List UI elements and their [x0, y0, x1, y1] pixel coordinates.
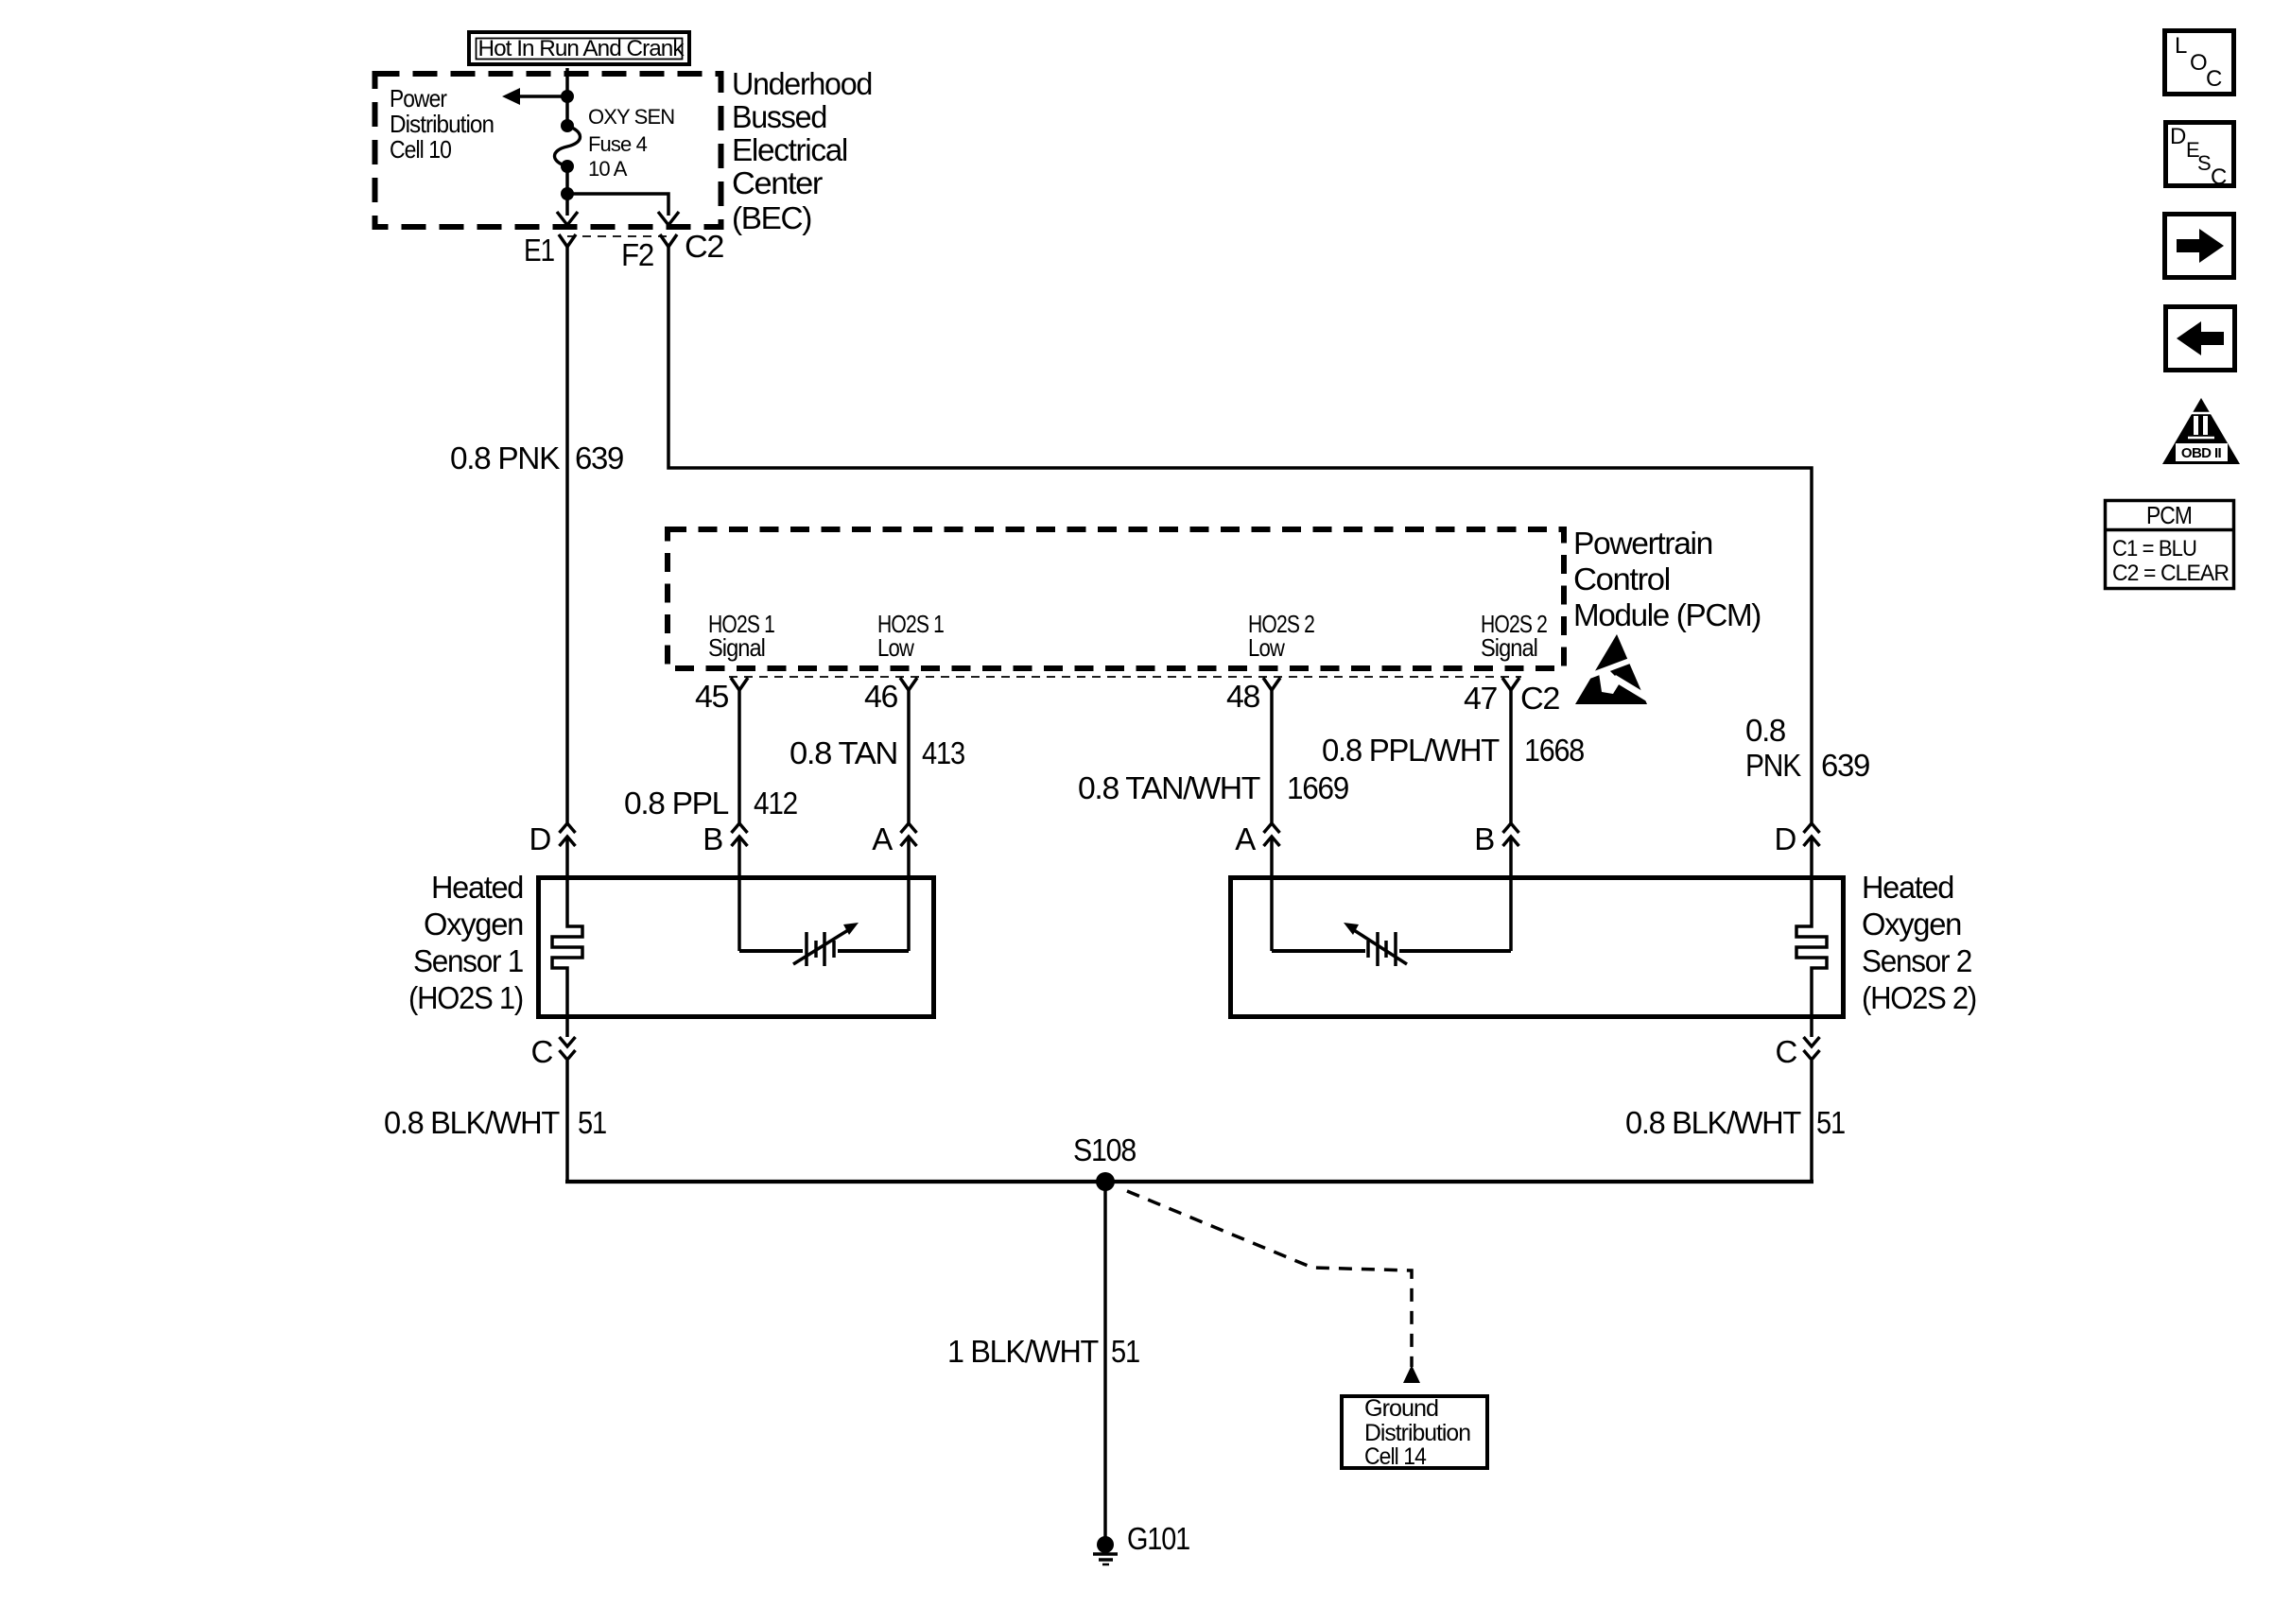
- label Underhood Bussed Electrical Center (BEC): [732, 66, 872, 235]
- svg-text:Sensor 1: Sensor 1: [413, 943, 523, 978]
- variable sense resistor HO2S2: [1272, 923, 1511, 966]
- wire 0.8 TAN/WHT 1669 (pin 48 to HO2S2 A): [1270, 690, 1274, 823]
- label HO2S 1 Signal: [708, 610, 774, 662]
- junction (fuse feed): [561, 90, 574, 103]
- svg-text:Distribution: Distribution: [390, 110, 494, 138]
- svg-text:1669: 1669: [1287, 770, 1348, 805]
- pin chevrons D (HO2S2): [1804, 823, 1820, 846]
- svg-text:C: C: [1775, 1034, 1796, 1069]
- label 0.8 PPL/WHT 1668: [1322, 733, 1584, 768]
- label 0.8 PNK 639 (right): [1745, 713, 1869, 783]
- ESD sensitivity symbol: [1575, 634, 1655, 704]
- label Powertrain Control Module (PCM): [1573, 526, 1761, 632]
- pin 47 (Y): [1502, 678, 1519, 690]
- pin chevrons D (HO2S1): [560, 823, 576, 846]
- svg-text:0.8 PNK: 0.8 PNK: [450, 441, 560, 475]
- label 1 BLK/WHT 51: [947, 1334, 1139, 1369]
- wire fuse output to branch junction: [565, 166, 569, 216]
- svg-text:S: S: [2197, 151, 2211, 175]
- svg-text:1 BLK/WHT: 1 BLK/WHT: [947, 1334, 1099, 1369]
- wire 1 BLK/WHT 51 (splice to G101): [1103, 1182, 1107, 1538]
- svg-text:0.8 TAN/WHT: 0.8 TAN/WHT: [1078, 770, 1260, 805]
- svg-text:0.8 BLK/WHT: 0.8 BLK/WHT: [384, 1105, 560, 1140]
- svg-text:639: 639: [575, 441, 623, 475]
- svg-text:L: L: [2175, 33, 2187, 59]
- wire branch to C2 terminal: [567, 194, 668, 216]
- svg-text:Underhood: Underhood: [732, 66, 872, 101]
- svg-text:(BEC): (BEC): [732, 200, 811, 235]
- svg-text:A: A: [872, 821, 893, 856]
- connector pin C2 (Y): [660, 234, 677, 247]
- BEC dashed box (Underhood Bussed Electrical Center): [375, 74, 721, 227]
- svg-text:B: B: [703, 821, 722, 856]
- svg-text:F2: F2: [621, 237, 653, 272]
- wire 0.8 PPL 412 (pin 45 to HO2S1 B): [737, 690, 741, 823]
- svg-text:0.8 PPL/WHT: 0.8 PPL/WHT: [1322, 733, 1500, 768]
- wire 0.8 PNK 639 (E1 to HO2S1 pin D): [565, 247, 569, 823]
- svg-text:C2: C2: [1520, 681, 1559, 716]
- svg-text:51: 51: [578, 1105, 606, 1140]
- svg-text:PNK: PNK: [1745, 748, 1801, 783]
- svg-text:51: 51: [1816, 1105, 1845, 1140]
- svg-text:C1 = BLU: C1 = BLU: [2112, 536, 2196, 561]
- svg-text:Heated: Heated: [431, 870, 523, 905]
- pin chevrons B (HO2S1): [732, 823, 748, 846]
- wire 0.8 BLK/WHT 51 (HO2S2 C to splice): [1810, 1019, 1813, 1037]
- svg-text:C: C: [2211, 164, 2227, 190]
- power source box "Hot In Run And Crank": [469, 32, 689, 64]
- pin chevrons A (HO2S1): [901, 823, 917, 846]
- HO2S1 box: [539, 878, 934, 1017]
- svg-text:C2: C2: [685, 229, 723, 264]
- svg-text:OBD II: OBD II: [2181, 445, 2222, 461]
- svg-text:D: D: [2170, 124, 2186, 149]
- svg-text:C: C: [2206, 66, 2222, 92]
- svg-text:47: 47: [1464, 681, 1497, 716]
- label HO2S 2 Low: [1248, 610, 1314, 662]
- svg-text:10 A: 10 A: [588, 157, 628, 181]
- svg-text:Control: Control: [1573, 561, 1670, 596]
- arrow to Power Distribution Cell 10: [502, 88, 567, 105]
- label 0.8 TAN/WHT 1669: [1078, 770, 1348, 805]
- svg-text:Bussed: Bussed: [732, 99, 826, 134]
- wire 0.8 PPL/WHT 1668 (pin 47 to HO2S2 B): [1509, 690, 1513, 823]
- fuse OXY SEN Fuse 4 10 A: [555, 119, 581, 173]
- svg-text:0.8: 0.8: [1745, 713, 1785, 748]
- svg-text:D: D: [529, 821, 550, 856]
- svg-text:412: 412: [754, 786, 797, 821]
- icon OBD II triangle: [2162, 398, 2240, 464]
- pin chevrons B (HO2S2): [1503, 823, 1519, 846]
- PCM dashed box (Powertrain Control Module): [668, 529, 1564, 668]
- label HO2S 1 Low: [877, 610, 944, 662]
- label 0.8 PNK 639: [450, 441, 623, 475]
- svg-text:E1: E1: [524, 233, 554, 268]
- svg-text:Cell 14: Cell 14: [1364, 1443, 1427, 1470]
- svg-text:(HO2S 2): (HO2S 2): [1862, 980, 1976, 1015]
- svg-text:48: 48: [1226, 679, 1259, 714]
- arrow into Ground Distribution box: [1403, 1365, 1420, 1383]
- svg-text:46: 46: [864, 679, 897, 714]
- svg-text:0.8 BLK/WHT: 0.8 BLK/WHT: [1625, 1105, 1801, 1140]
- label Power Distribution Cell 10: [390, 84, 494, 164]
- svg-text:G101: G101: [1127, 1521, 1189, 1556]
- label 0.8 PPL 412: [624, 786, 797, 821]
- svg-text:PCM: PCM: [2146, 501, 2192, 529]
- pin chevrons A (HO2S2): [1264, 823, 1280, 846]
- svg-text:C2 = CLEAR: C2 = CLEAR: [2112, 561, 2230, 586]
- svg-text:Low: Low: [877, 633, 914, 662]
- label Heated Oxygen Sensor 2 (HO2S 2): [1862, 870, 1976, 1015]
- junction at branch to F2: [561, 187, 574, 200]
- pin 48 (Y): [1263, 678, 1280, 690]
- svg-text:1668: 1668: [1524, 733, 1584, 768]
- icon DESC: [2166, 123, 2234, 191]
- heater element HO2S1: [552, 875, 582, 1019]
- svg-text:Cell 10: Cell 10: [390, 135, 452, 164]
- icon arrow right: [2165, 215, 2234, 278]
- label 0.8 BLK/WHT 51 (right): [1625, 1105, 1845, 1140]
- ground G101: [1093, 1536, 1118, 1564]
- PCM connector face dashed line: [729, 676, 1521, 678]
- pin 45 (Y): [731, 678, 748, 690]
- svg-text:Electrical: Electrical: [732, 132, 847, 167]
- svg-text:413: 413: [922, 735, 964, 770]
- ground bus wire: [565, 1180, 1813, 1183]
- svg-text:45: 45: [695, 679, 728, 714]
- svg-text:Signal: Signal: [1481, 633, 1537, 662]
- svg-text:Heated: Heated: [1862, 870, 1953, 905]
- arrowhead at F2/C2 terminal: [658, 212, 679, 225]
- splice S108: [1096, 1172, 1115, 1191]
- svg-text:Oxygen: Oxygen: [424, 907, 523, 942]
- label 0.8 TAN 413: [789, 735, 964, 770]
- svg-text:Low: Low: [1248, 633, 1285, 662]
- wire 0.8 BLK/WHT 51 (HO2S1 C to splice): [565, 1019, 569, 1037]
- svg-text:S108: S108: [1073, 1132, 1136, 1167]
- svg-text:Hot In Run And Crank: Hot In Run And Crank: [478, 36, 685, 61]
- svg-text:(HO2S 1): (HO2S 1): [408, 980, 523, 1015]
- icon arrow left: [2166, 307, 2235, 371]
- svg-text:D: D: [1774, 821, 1796, 856]
- heater element HO2S2: [1796, 875, 1827, 1019]
- icon LOC: [2165, 31, 2234, 95]
- pin chevrons C (HO2S2): [1804, 1037, 1820, 1060]
- svg-text:Distribution: Distribution: [1364, 1420, 1470, 1446]
- svg-text:Module (PCM): Module (PCM): [1573, 597, 1761, 632]
- label Heated Oxygen Sensor 1 (HO2S 1): [408, 870, 523, 1015]
- label OXY SEN Fuse 4 10 A: [588, 105, 674, 181]
- svg-text:C: C: [530, 1034, 552, 1069]
- dashed reference wire to Ground Distribution: [1127, 1191, 1412, 1367]
- svg-text:Power: Power: [390, 84, 447, 112]
- svg-text:O: O: [2190, 50, 2207, 76]
- svg-text:A: A: [1235, 821, 1256, 856]
- pin 46 (Y): [900, 678, 917, 690]
- svg-text:B: B: [1474, 821, 1494, 856]
- pin chevrons C (HO2S1): [560, 1037, 576, 1060]
- label HO2S 2 Signal: [1481, 610, 1547, 662]
- connector face dashed line E1-F2: [567, 235, 668, 237]
- arrowhead at E1 terminal: [557, 212, 578, 225]
- HO2S2 box: [1231, 878, 1844, 1017]
- svg-text:Center: Center: [732, 165, 823, 200]
- svg-text:0.8 PPL: 0.8 PPL: [624, 786, 729, 821]
- wire 0.8 PNK 639 (C2 to HO2S2 pin D): [668, 247, 1812, 823]
- PCM connector legend box: [2104, 501, 2235, 589]
- svg-text:Sensor 2: Sensor 2: [1862, 943, 1971, 978]
- wire 0.8 TAN 413 (pin 46 to HO2S1 A): [907, 690, 911, 823]
- svg-text:Ground: Ground: [1364, 1395, 1438, 1422]
- svg-text:Fuse 4: Fuse 4: [588, 132, 648, 156]
- variable sense resistor HO2S1: [739, 923, 909, 966]
- svg-text:51: 51: [1111, 1334, 1139, 1369]
- svg-text:OXY SEN: OXY SEN: [588, 105, 674, 129]
- svg-text:0.8 TAN: 0.8 TAN: [789, 735, 897, 770]
- connector pin E1 (Y): [559, 234, 576, 247]
- svg-text:Oxygen: Oxygen: [1862, 907, 1961, 942]
- wire: feed from Hot In Run And Crank into BEC: [565, 68, 569, 126]
- svg-text:Signal: Signal: [708, 633, 765, 662]
- svg-text:Powertrain: Powertrain: [1573, 526, 1712, 561]
- Ground Distribution Cell 14 box: [1342, 1395, 1487, 1470]
- label 0.8 BLK/WHT 51 (left): [384, 1105, 606, 1140]
- svg-text:639: 639: [1821, 748, 1869, 783]
